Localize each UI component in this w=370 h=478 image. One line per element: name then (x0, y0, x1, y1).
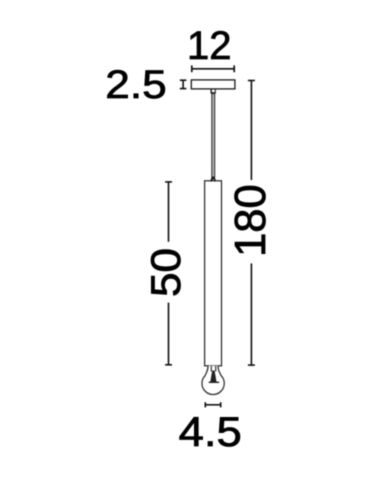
svg-text:2.5: 2.5 (105, 63, 166, 107)
svg-text:50: 50 (142, 248, 189, 297)
svg-text:4.5: 4.5 (179, 408, 242, 455)
svg-text:12: 12 (187, 24, 232, 68)
svg-text:180: 180 (227, 184, 275, 257)
